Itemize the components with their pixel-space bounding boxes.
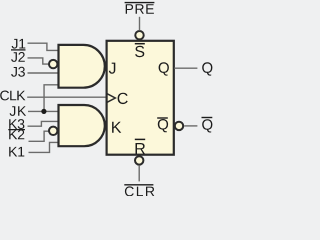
pin label K <box>112 122 121 133</box>
pin label R (with overline) <box>135 139 145 154</box>
wire K2 <box>29 131 49 141</box>
label K2 (with overline) <box>8 130 25 140</box>
wire CLR <box>138 166 140 182</box>
label K1 <box>9 147 24 157</box>
PRE bubble on S input <box>135 31 143 39</box>
label JK <box>10 106 27 116</box>
wire JK to bottom gate <box>28 110 58 112</box>
junction dot on JK net <box>41 109 46 114</box>
wire J2 <box>28 58 49 64</box>
label Q-bar output (with overline) <box>202 118 213 133</box>
label K3 <box>9 119 24 129</box>
pin label S (with overline) <box>135 44 145 58</box>
pin label Q-bar inside <box>157 118 168 132</box>
AND gate U1 (top, J inputs) <box>59 45 105 88</box>
pin label Q inside <box>159 62 169 75</box>
clock chevron <box>107 94 116 103</box>
wire K1 <box>29 142 58 152</box>
inversion bubble on U1 J2 input <box>49 60 57 68</box>
wire PRE <box>139 17 141 31</box>
wire J1 <box>28 43 58 50</box>
wire K3 <box>28 121 58 126</box>
wire J3 <box>28 72 58 74</box>
flip-flop U3 body <box>107 41 174 155</box>
pin label C <box>118 93 128 104</box>
label CLR (with overline) <box>124 185 154 197</box>
label Q output <box>202 62 212 75</box>
label PRE (with overline) <box>125 3 155 14</box>
wire Q-bar output <box>184 125 197 127</box>
label J1 <box>12 39 26 49</box>
AND gate U2 (bottom, K inputs) <box>59 105 105 146</box>
label J2 (with overline) <box>11 50 26 62</box>
inversion bubble on Q-bar output <box>175 122 183 130</box>
label CLK <box>0 91 25 101</box>
pin label J <box>109 63 116 74</box>
label J3 <box>11 67 25 77</box>
CLR bubble on R input <box>135 156 143 164</box>
wire Q output <box>174 67 197 69</box>
inversion bubble on U2 K2 input <box>49 127 57 135</box>
wire JK branch up to top gate fourth input <box>44 85 58 112</box>
wire CLK to C input <box>27 96 106 98</box>
